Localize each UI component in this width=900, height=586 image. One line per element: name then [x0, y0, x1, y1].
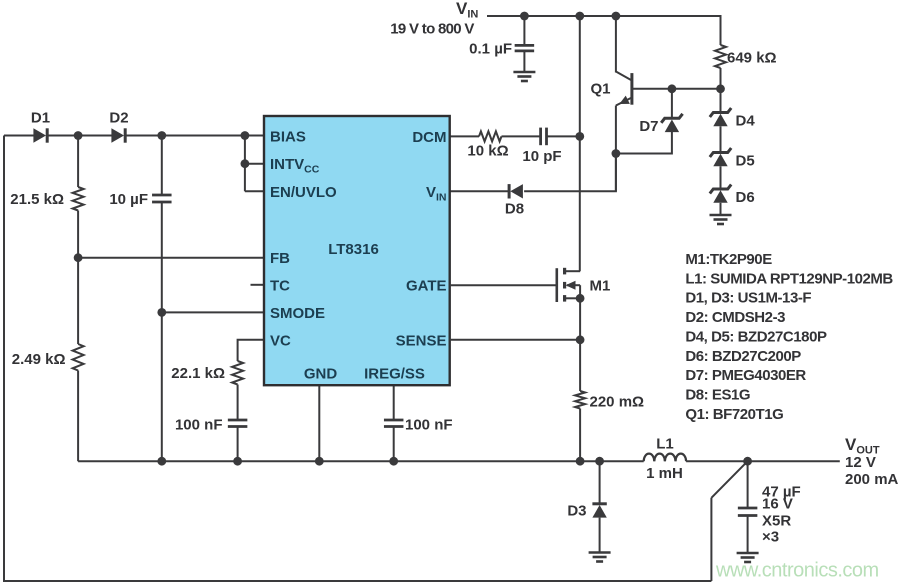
capacitor 10uF [152, 195, 172, 202]
label D5 [736, 153, 755, 170]
wire: M1 source down [579, 298, 581, 391]
diode D5 (zener) [710, 148, 731, 166]
resistor 21.5k [73, 187, 84, 211]
label LT8316 [328, 241, 379, 258]
resistor 649k [715, 45, 726, 68]
label 200 mA [845, 471, 899, 488]
svg-text:D7: D7 [639, 118, 658, 135]
diode D2 [111, 128, 125, 142]
node: D7 base junction [668, 84, 677, 93]
node: D1-D2 junction [74, 131, 83, 140]
node: output junction [743, 457, 752, 466]
wire: 100nF IREG to rail [393, 427, 395, 462]
wire: TC stub [251, 284, 265, 286]
resistor 10k [479, 131, 502, 141]
svg-text:BIAS: BIAS [270, 128, 306, 145]
wire: bottom feedback horizontal [3, 580, 711, 582]
svg-text:FB: FB [270, 250, 290, 267]
pin label GATE [406, 278, 447, 295]
label 2.49 kOhm [12, 351, 66, 368]
svg-text:D2: CMDSH2-3: D2: CMDSH2-3 [685, 309, 785, 326]
ground (D6) [710, 215, 732, 224]
label 100 nF (VC) [175, 417, 223, 434]
wire: output node to 47uF [747, 461, 749, 508]
svg-text:L1: SUMIDA RPT129NP-102MB: L1: SUMIDA RPT129NP-102MB [685, 270, 893, 287]
wire: 100nF to bottom rail [237, 427, 239, 462]
label 0.1 uF [469, 41, 512, 58]
svg-text:D1, D3: US1M-13-F: D1, D3: US1M-13-F [685, 290, 811, 307]
wire: bottom rail left of L1 [78, 460, 644, 462]
wire: D6 to ground [720, 203, 722, 215]
svg-text:L1: L1 [656, 435, 674, 452]
node: IREG rail junction [389, 457, 398, 466]
wire: 10uF bottom / SMODE vertical [161, 202, 163, 461]
svg-text:100 nF: 100 nF [405, 417, 453, 434]
label D1 [31, 110, 50, 127]
svg-text:220 mΩ: 220 mΩ [590, 393, 645, 410]
wire: R21.5k to FB node [77, 211, 79, 258]
wire: feedback vertical up [710, 498, 712, 581]
label 649 kOhm [727, 50, 777, 67]
svg-text:2.49 kΩ: 2.49 kΩ [12, 351, 66, 368]
wire: 0.1uF bottom lead [523, 51, 525, 72]
pin label DCM [412, 129, 446, 146]
svg-text:SENSE: SENSE [396, 332, 447, 349]
transistor M1 [557, 268, 580, 302]
label D2 [109, 110, 128, 127]
label component list [685, 251, 893, 423]
svg-text:10 pF: 10 pF [522, 148, 561, 165]
node: 10uF top junction [157, 131, 166, 140]
label D6 [736, 189, 755, 206]
wire: R220m to rail [579, 409, 581, 462]
svg-text:D3: D3 [567, 502, 586, 519]
wire: D2 to BIAS pin [125, 135, 264, 137]
svg-text:M1: M1 [590, 277, 611, 294]
inductor L1 [644, 454, 686, 462]
node: INTVCC junction [241, 159, 250, 168]
wire: IREG/SS pin vertical [393, 385, 395, 420]
node: R220m rail junction [576, 457, 585, 466]
wire: BIAS to EN/UVLO vertical [244, 136, 246, 192]
node: D3 rail junction [595, 457, 604, 466]
node: SMODE junction [157, 308, 166, 317]
pin label SMODE [270, 305, 325, 322]
wire: R22.1k to 100nF [237, 385, 239, 421]
capacitor 0.1uF [515, 45, 535, 51]
pin label BIAS [270, 128, 306, 145]
svg-text:D4, D5: BZD27C180P: D4, D5: BZD27C180P [685, 328, 827, 345]
pin label INTVCC [270, 156, 320, 176]
svg-text:TC: TC [270, 277, 290, 294]
label VOUT [845, 435, 880, 457]
op-amp U1: LT8316 block [264, 116, 450, 385]
label 12 V [845, 454, 876, 471]
svg-text:D4: D4 [736, 113, 756, 130]
wire: 47uF to ground [747, 516, 749, 554]
svg-text:0.1 µF: 0.1 µF [469, 41, 512, 58]
svg-text:X5R: X5R [762, 513, 791, 530]
svg-text:D8: ES1G: D8: ES1G [685, 386, 750, 403]
label D4 [736, 113, 756, 130]
wire: Q1 emitter lead [615, 106, 617, 192]
pin label VIN [426, 184, 447, 204]
wire: emitter junction to D7 [616, 132, 672, 154]
pin label IREG/SS [364, 365, 425, 382]
capacitor 100nF (IREG/SS) [384, 420, 404, 427]
wire: D4 to D5 [720, 126, 722, 152]
wire: Q1 collector lead [615, 16, 617, 73]
label 10 kOhm [467, 143, 508, 160]
label Q1 [590, 81, 610, 98]
diode D1 [33, 128, 47, 142]
wire: D8 to emitter branch [524, 156, 616, 192]
node: 0.1uF rail junction [520, 12, 529, 21]
label 21.5 kOhm [10, 191, 64, 208]
wire: rail to M1 drain vertical [579, 16, 581, 271]
pin label SENSE [396, 332, 447, 349]
transistor Q1 [616, 72, 632, 109]
label VIN [456, 0, 478, 21]
label 1 mH [646, 465, 683, 482]
label M1 [590, 277, 611, 294]
wire: SMODE pin [162, 311, 264, 313]
label D7 [639, 118, 658, 135]
wire: Q1 base lead [632, 88, 721, 90]
wire: R10k to 10pF [502, 135, 541, 137]
svg-text:Q1: Q1 [590, 81, 610, 98]
label 220 mOhm [590, 393, 645, 410]
svg-text:D6: BZD27C200P: D6: BZD27C200P [685, 348, 801, 365]
node: 10pF junction [575, 132, 584, 141]
svg-text:200 mA: 200 mA [845, 471, 899, 488]
wire: VIN top rail [487, 16, 721, 45]
wire: SENSE pin [450, 339, 580, 341]
node: M1 source junction [576, 294, 585, 303]
diode D3 [592, 504, 606, 518]
svg-text:LT8316: LT8316 [328, 241, 379, 258]
resistor 220 mOhm [575, 391, 585, 409]
wire: D7 to base line [671, 89, 673, 119]
label 10 uF [109, 191, 148, 208]
node: emitter/D7 junction [612, 149, 621, 158]
svg-text:IREG/SS: IREG/SS [364, 365, 425, 382]
wire: DCM pin to R10k [450, 135, 479, 137]
diode D4 (zener) [710, 108, 731, 126]
svg-text:19 V to 800 V: 19 V to 800 V [390, 21, 474, 38]
wire: VC pin [238, 340, 264, 361]
pin label GND [304, 365, 338, 382]
resistor 2.49k [73, 344, 84, 371]
wire: 0.1uF top lead [523, 16, 525, 46]
wire: bottom rail right of L1 [686, 460, 840, 462]
svg-text:22.1 kΩ: 22.1 kΩ [171, 365, 225, 382]
resistor 22.1k [232, 361, 243, 385]
svg-text:100 nF: 100 nF [175, 417, 223, 434]
node: Q1 collector rail junction [612, 12, 621, 21]
node: base/R649k junction [716, 84, 725, 93]
wire: R2.49k to bottom rail [77, 371, 79, 462]
ground (0.1uF) [513, 72, 535, 81]
wire: FB pin horizontal [78, 257, 264, 259]
wire: D3 to ground [599, 518, 601, 553]
ground (47uF) [737, 553, 759, 562]
node: SENSE junction [576, 335, 585, 344]
label x3 [762, 528, 779, 545]
diode D8 [509, 184, 523, 198]
svg-text:DCM: DCM [412, 129, 446, 146]
label X5R [762, 513, 791, 530]
svg-text:649 kΩ: 649 kΩ [727, 50, 777, 67]
capacitor 10pF [541, 128, 547, 146]
svg-text:SMODE: SMODE [270, 305, 325, 322]
node: FB junction [74, 253, 83, 262]
node: VC rail junction [233, 457, 242, 466]
svg-text:www.cntronics.com: www.cntronics.com [715, 560, 879, 582]
wire: input to D1 [4, 135, 34, 137]
wire: VIN pin to D8 [450, 190, 509, 192]
label D8 [505, 201, 524, 218]
label 19V to 800V [390, 21, 474, 38]
wire: feedback diagonal to output node [711, 461, 747, 498]
svg-text:M1:TK2P90E: M1:TK2P90E [685, 251, 772, 268]
node: GND rail junction [315, 457, 324, 466]
svg-text:GATE: GATE [406, 278, 447, 295]
pin label TC [270, 277, 290, 294]
svg-text:EN/UVLO: EN/UVLO [270, 184, 337, 201]
label 10 pF [522, 148, 561, 165]
label L1 [656, 435, 674, 452]
wire: GATE pin to M1 [450, 284, 557, 286]
node: SMODE rail junction [157, 457, 166, 466]
diode D6 (zener) [710, 185, 731, 203]
diode D7 (zener) [661, 114, 682, 132]
label watermark [715, 560, 879, 582]
wire: R649k to D4 node [720, 68, 722, 113]
pin label FB [270, 250, 290, 267]
label 47 uF [762, 483, 801, 500]
svg-text:16 V: 16 V [762, 496, 793, 513]
svg-text:Q1: BF720T1G: Q1: BF720T1G [685, 406, 783, 423]
label D3 [567, 502, 586, 519]
svg-text:12 V: 12 V [845, 454, 876, 471]
svg-text:10 kΩ: 10 kΩ [467, 143, 508, 160]
wire: D1 junction down to R 21.5k [77, 136, 79, 188]
wire: D5 to D6 [720, 166, 722, 189]
pin label VC [270, 332, 291, 349]
svg-text:D6: D6 [736, 189, 755, 206]
label 22.1 kOhm [171, 365, 225, 382]
wire: left input vertical [3, 136, 5, 582]
wire: 10pF to drain line [547, 135, 580, 137]
svg-text:GND: GND [304, 365, 338, 382]
label 16 V [762, 496, 793, 513]
wire: 10uF top lead [161, 136, 163, 196]
svg-text:21.5 kΩ: 21.5 kΩ [10, 191, 64, 208]
svg-text:D5: D5 [736, 153, 755, 170]
svg-text:D1: D1 [31, 110, 50, 127]
svg-text:D8: D8 [505, 201, 524, 218]
svg-text:VC: VC [270, 332, 291, 349]
svg-text:D2: D2 [109, 110, 128, 127]
wire: EN/UVLO pin [245, 190, 264, 192]
svg-text:10 µF: 10 µF [109, 191, 148, 208]
capacitor 47uF x3 [738, 508, 758, 516]
svg-text:×3: ×3 [762, 528, 779, 545]
wire: FB node down to R2.49k [77, 258, 79, 344]
capacitor 100nF (VC) [228, 420, 248, 427]
node: BIAS branch junction [241, 131, 250, 140]
svg-text:D7: PMEG4030ER: D7: PMEG4030ER [685, 367, 806, 384]
svg-text:1 mH: 1 mH [646, 465, 683, 482]
pin label EN/UVLO [270, 184, 337, 201]
node: drain rail junction [575, 12, 584, 21]
wire: D1 to D2 [47, 135, 112, 137]
wire: GND pin vertical [318, 385, 320, 461]
wire: rail to D3 [599, 461, 601, 504]
label 100 nF (IREG) [405, 417, 453, 434]
wire: INTVCC pin [245, 163, 264, 165]
ground (D3) [589, 553, 611, 562]
